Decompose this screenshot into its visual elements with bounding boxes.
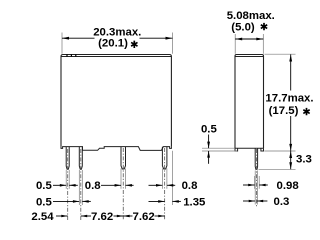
dim 7.62 first line right part: [114, 215, 124, 217]
pin 1 edge extension lines: [66, 170, 69, 189]
dimension 0.5 standoff left of side view: [207, 135, 210, 164]
svg-text:0.98: 0.98: [277, 180, 299, 192]
pin 3 (NO contact) front view: [121, 147, 126, 169]
body right edge extension line: [171, 151, 173, 205]
pin 2 edge extension lines: [79, 170, 82, 205]
dim 20.3 left arrowhead: [62, 37, 69, 40]
svg-text:0.8: 0.8: [85, 180, 101, 192]
asterisk for (17.5): [303, 108, 309, 115]
dim 0.5 pin2 arrow left-pointing: [82, 200, 88, 203]
asterisk for (20.1): [131, 41, 137, 48]
pin 1 (coil) front view: [66, 147, 69, 169]
dim 0.8 pin4 arrow right-pointing: [156, 184, 162, 187]
side view bottom edge: [235, 147, 264, 149]
dim 0.3 arrow left-pointing: [257, 200, 263, 203]
row 3 dimensions: 2.54, 7.62, 7.62: [56, 215, 165, 218]
svg-text:17.7max.: 17.7max.: [265, 92, 313, 104]
side view left foot: [235, 148, 238, 151]
dim 0.5 pin2 leader right: [82, 200, 91, 202]
extension lines from pin edges, front view: [62, 33, 173, 206]
pin centerlines (dash-dot) front view: [68, 148, 165, 220]
side pin centerline: [255, 149, 257, 207]
dim 0.5 pin1 arrow right-pointing: [60, 184, 66, 187]
dim 5.08 line: [235, 38, 263, 40]
svg-text:0.8: 0.8: [182, 180, 198, 192]
svg-text:7.62: 7.62: [91, 211, 113, 223]
dim 0.5 arrow pointing up: [207, 151, 210, 158]
dim 0.98 leader right: [259, 184, 268, 186]
dim 0.8 pin3 leader left: [101, 184, 121, 186]
asterisk for (5.0): [261, 23, 267, 30]
dim 2.54 leader left: [56, 215, 68, 217]
side view extension lines: [202, 34, 296, 205]
svg-text:20.3max.: 20.3max.: [93, 26, 141, 38]
dim 1.35 arrow right-pointing: [158, 200, 164, 203]
pin tip extension line y169.3: [259, 168, 296, 170]
dim 0.5 pin2 leader left: [53, 200, 79, 202]
front view body outline: [61, 55, 171, 147]
dim 0.5 pin1 leader right: [69, 184, 78, 186]
dim 20.3 right arrowhead: [166, 37, 173, 40]
svg-text:3.3: 3.3: [296, 153, 312, 165]
side view right foot: [261, 148, 264, 151]
svg-text:1.35: 1.35: [183, 196, 206, 208]
dimension 0.98 side view: [243, 184, 268, 187]
dim 0.8 pin3 arrow left-pointing: [126, 184, 132, 187]
0.98 extension lines: [255, 176, 260, 189]
dim 1.35 arrow left-pointing: [172, 200, 178, 203]
dim 3.3 line: [290, 151, 292, 169]
standoff extension line y150.7 left: [202, 150, 237, 152]
dim 7.62 first arrow right-pointing at pin3 center: [117, 215, 123, 218]
dim 0.5 pin1 leader left: [53, 184, 66, 186]
pin 4 edge extension lines: [162, 169, 167, 189]
svg-text:0.5: 0.5: [201, 124, 217, 136]
dim 7.62 second line left part: [123, 215, 132, 217]
dimension 17.7max right side: [289, 55, 292, 151]
dimension 5.08max top of side view: [235, 38, 263, 41]
pin 3 edge extension lines: [121, 169, 126, 189]
dim 0.3 leader right: [257, 200, 268, 202]
dim 20.3 line right segment: [140, 37, 173, 39]
pin 1 centerline: [67, 149, 69, 220]
dim 5.08 right arrowhead: [256, 38, 263, 41]
dim 0.5 pin2 arrow right-pointing: [73, 200, 79, 203]
side view case seam line: [235, 56, 263, 58]
top right extension line y54.2: [265, 53, 296, 55]
pin 2 centerline: [80, 149, 82, 220]
dim 0.8 pin3 arrow right-pointing: [115, 184, 121, 187]
svg-text:(5.0): (5.0): [231, 21, 255, 33]
vent tick marks top-left: [67, 54, 76, 56]
svg-text:7.62: 7.62: [133, 211, 155, 223]
dim 0.98 leader left: [243, 184, 255, 186]
dim 7.62 first arrow left-pointing at pin2 center: [81, 215, 87, 218]
dim 1.35 leader left: [149, 200, 165, 202]
dim 7.62 first line left part: [81, 215, 91, 217]
front view case seam line: [61, 56, 171, 58]
svg-text:2.54: 2.54: [31, 211, 54, 223]
dim 0.3 arrow right-pointing: [249, 200, 255, 203]
pin 3 centerline: [122, 148, 124, 220]
standoff extension line y148.2 left: [202, 147, 235, 149]
svg-text:0.5: 0.5: [36, 196, 52, 208]
dim 0.3 leader left: [243, 200, 255, 202]
dim 5.08 left arrowhead: [235, 38, 242, 41]
dim 7.62 second line right part: [155, 215, 165, 217]
dim 17.7 upper arrowhead pointing up: [289, 55, 292, 62]
side view pin: [255, 148, 257, 169]
svg-text:(17.5): (17.5): [269, 105, 299, 117]
dim 0.8 pin3 leader right: [126, 184, 134, 186]
dimension 3.3 right side: [289, 151, 292, 169]
dim 0.8 pin4 leader left: [149, 184, 163, 186]
row 1 dimensions: 0.5, 0.8, 0.8: [53, 184, 175, 187]
dim 17.7 lower arrowhead pointing down: [289, 144, 292, 151]
dim 7.62 second arrow left-pointing at pin3 center: [123, 215, 129, 218]
dim 20.3 line left segment: [62, 37, 95, 39]
dimension 20.3max top of front view: [62, 37, 173, 40]
row 2 dimensions: 0.5, 1.35: [53, 200, 181, 203]
side view body outline: [235, 55, 264, 149]
dim 1.35 leader right: [172, 200, 181, 202]
front view bottom profile with feet and notches: [61, 147, 171, 151]
svg-text:(20.1): (20.1): [98, 38, 128, 50]
svg-text:5.08max.: 5.08max.: [227, 10, 275, 22]
dim 17.7 line upper segment: [290, 55, 292, 91]
pin 4 (COM contact) front view: [162, 147, 167, 169]
dim 0.5 lower leader: [208, 151, 210, 164]
dim 3.3 lower arrowhead pointing down: [289, 162, 292, 169]
dim 7.62 second arrow right-pointing at pin4 center: [158, 215, 164, 218]
dim 0.8 pin4 arrow left-pointing: [167, 184, 173, 187]
dim 5.08 extension lines: [235, 34, 263, 54]
dim 0.98 arrow right-pointing: [248, 184, 254, 187]
dim 17.7 line lower segment: [290, 116, 292, 151]
dim 0.5 upper leader: [208, 135, 210, 149]
svg-text:0.3: 0.3: [274, 196, 290, 208]
dim 0.5 pin1 arrow left-pointing: [69, 184, 75, 187]
dim 0.8 pin4 leader right: [167, 184, 175, 186]
dimension 0.3 side view: [243, 200, 267, 203]
pin 2 (coil) front view: [79, 147, 82, 169]
svg-text:0.5: 0.5: [36, 180, 52, 192]
pin 4 centerline: [164, 148, 166, 220]
side pin edge extension lines: [255, 171, 257, 205]
dim 0.98 arrow left-pointing: [259, 184, 265, 187]
dim 2.54 arrow right-pointing: [61, 215, 67, 218]
dim 20.3 extension lines: [62, 33, 173, 54]
dim 3.3 upper arrowhead pointing up: [289, 151, 292, 158]
dim 0.5 arrow pointing down: [207, 142, 210, 149]
seating plane extension line y150.7: [264, 150, 295, 152]
